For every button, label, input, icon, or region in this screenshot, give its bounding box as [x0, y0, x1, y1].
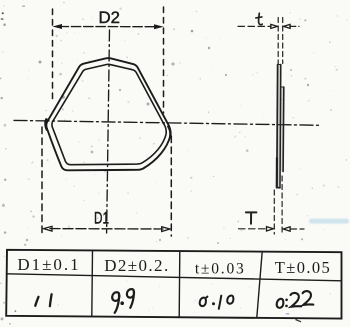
- table column divider 1: [91, 250, 94, 316]
- T right extension line: [281, 176, 283, 234]
- D1 left extension line: [41, 127, 43, 236]
- D2 right extension line: [163, 7, 165, 113]
- side view: leaf bottom cap: [277, 187, 280, 189]
- stray pen tick below table: [296, 320, 302, 322]
- T left arrowhead (open, pointing right): [267, 227, 274, 231]
- svg-text:T±0.05: T±0.05: [275, 258, 331, 277]
- t right extension line: [282, 18, 284, 64]
- D2 left extension line: [52, 9, 54, 101]
- svg-text:D2: D2: [99, 8, 121, 27]
- table column divider 2: [178, 251, 181, 317]
- table column divider 3: [257, 252, 262, 318]
- D1 right arrowhead (open): [162, 227, 170, 232]
- svg-text:D1±0.1: D1±0.1: [17, 255, 80, 274]
- handwritten value 9.9: [112, 289, 134, 313]
- svg-text:D2±0.2.: D2±0.2.: [104, 256, 169, 275]
- horizontal centerline: [14, 120, 320, 125]
- side view: front leaf interior shading: [277, 65, 281, 188]
- T dimension leader left: [239, 228, 267, 230]
- side view: front leaf left edge: [276, 65, 279, 188]
- outer outline of washer (front view): [46, 58, 170, 170]
- D1 right extension line: [170, 136, 172, 236]
- svg-text:D1: D1: [94, 210, 109, 228]
- handwritten value 11: [35, 294, 51, 306]
- decimal colon of 0.22: [285, 299, 288, 302]
- handwritten value 0.10: [200, 296, 234, 309]
- vertical centerline: [107, 30, 110, 233]
- decimal point of 9.9: [120, 301, 124, 305]
- t dimension leader left: [238, 25, 271, 27]
- side view: back leaf right edge: [282, 87, 285, 172]
- side view: back leaf top step: [281, 86, 284, 88]
- side view: leaf lower-left heavier ink: [276, 158, 278, 187]
- t left extension line: [277, 18, 279, 64]
- handwritten value 0.22: [277, 291, 314, 308]
- T left extension line: [273, 190, 275, 234]
- T dimension leader right: [290, 228, 304, 230]
- svg-text:t±0.03: t±0.03: [195, 261, 246, 278]
- decimal point of 0.10: [212, 302, 215, 305]
- t left arrowhead (open, pointing right): [271, 24, 278, 28]
- side view: front leaf right edge: [279, 65, 282, 188]
- D2 right arrowhead (filled): [154, 24, 164, 29]
- t right arrowhead (open, pointing left): [284, 24, 291, 28]
- side view: leaf top cap: [278, 64, 281, 66]
- inner outline of washer (front view): [52, 64, 166, 164]
- D2 left arrowhead (filled): [52, 24, 62, 29]
- table header separator: [7, 274, 342, 281]
- table outer border: [6, 250, 341, 319]
- label t (handwritten): [256, 13, 262, 24]
- label T: [246, 212, 257, 223]
- side view: back leaf interior shading: [280, 87, 284, 172]
- T right arrowhead (open, pointing left): [283, 227, 290, 231]
- small blue mark under table value: [286, 313, 290, 315]
- ink blob at right vertex: [168, 127, 170, 137]
- t dimension leader right: [290, 25, 299, 27]
- ink blob at left vertex: [46, 120, 47, 130]
- D1 dimension line: [50, 228, 163, 230]
- blue highlighter streak: [309, 219, 349, 224]
- D2 dimension line: [59, 26, 157, 28]
- D1 left arrowhead (open): [44, 226, 52, 231]
